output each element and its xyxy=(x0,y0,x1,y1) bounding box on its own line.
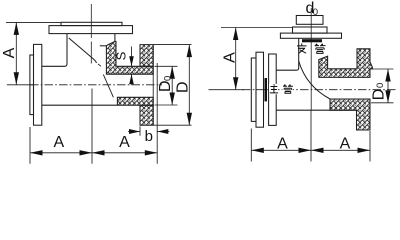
char 主 xyxy=(270,84,278,93)
dim D: line xyxy=(188,45,190,126)
svg-text:D: D xyxy=(157,80,174,92)
bottom A1 arrows xyxy=(30,150,43,155)
dim D0: line xyxy=(171,66,173,105)
hatched branch right wall + top run wall band xyxy=(106,41,153,74)
bottom A2 arrows (right fig) xyxy=(311,148,324,153)
left loose flange (right fig) xyxy=(256,52,264,127)
run bottom outer line xyxy=(276,109,356,111)
hatched branch right wall + top run wall + right socket boss xyxy=(319,49,373,78)
dim Dg right: line xyxy=(387,69,389,103)
dim S: line xyxy=(131,47,133,85)
svg-text:A: A xyxy=(340,135,351,152)
branch flange plate xyxy=(280,33,341,38)
hatched right socket top block xyxy=(140,45,153,67)
svg-text:A: A xyxy=(1,47,18,58)
dim D0 arrows xyxy=(170,66,175,79)
dim S arrows xyxy=(129,56,134,66)
left lap stub ring xyxy=(30,55,34,115)
dimensions of right figure xyxy=(221,28,293,90)
socket outer edge line xyxy=(152,45,154,126)
A-vert bottom extension / centerline left part xyxy=(209,89,245,91)
bottom ext lines (left fig) xyxy=(30,89,92,164)
dim A vertical (right fig): line xyxy=(235,28,237,90)
label D0 right (rotated) xyxy=(371,83,388,100)
top flange xyxy=(49,26,133,34)
dim Dg arrows (right fig) xyxy=(385,69,390,82)
dim D: extension lines xyxy=(153,45,191,126)
dim A vertical arrows xyxy=(14,22,19,35)
branch right wall stub below flange xyxy=(114,34,116,42)
CJK label 主管 (main pipe), white bg then strokes xyxy=(269,84,278,95)
dim b: extension lines xyxy=(140,124,157,164)
CJK label 支管 (branch pipe), hand-drawn strokes xyxy=(297,44,326,54)
svg-text:0: 0 xyxy=(375,83,386,88)
main pipe centerline (left fig) xyxy=(30,84,162,86)
left lap stub ring (right fig) xyxy=(251,58,256,121)
transition diagonal xyxy=(69,38,97,63)
dimensions of left figure xyxy=(6,22,61,84)
branch centerline (right fig) xyxy=(310,8,312,111)
branch gasket (solid) xyxy=(302,39,322,42)
bore transition diagonal xyxy=(103,74,113,97)
bottom ext lines (right fig) xyxy=(251,111,370,162)
top mid plate xyxy=(293,27,328,33)
branch left outer wall xyxy=(42,34,67,67)
char 管 (2) xyxy=(283,85,293,94)
svg-text:b: b xyxy=(145,128,153,145)
dim A vertical: extension lines xyxy=(6,22,61,84)
hatched bottom run wall + right socket bottom xyxy=(330,99,370,130)
left gasket (solid) xyxy=(265,78,268,101)
bottom A2 arrows xyxy=(92,150,105,155)
branch centerline (left fig) xyxy=(90,4,92,64)
svg-text:D: D xyxy=(371,89,388,101)
dash of diagonal centerline xyxy=(98,64,101,66)
body left flange xyxy=(269,54,277,125)
dim b arrows xyxy=(129,129,140,134)
dim Dg right: ext lines xyxy=(371,69,394,103)
label d0 (top) xyxy=(306,0,319,18)
main pipe bottom outer line xyxy=(42,104,118,106)
dim A vertical (right fig): ext line xyxy=(221,27,293,29)
dim D arrows xyxy=(187,45,192,58)
branch bore curve into run xyxy=(299,61,330,99)
hatched bottom run wall band xyxy=(117,97,153,105)
dim A vertical: line xyxy=(15,22,17,84)
svg-text:A: A xyxy=(53,134,64,151)
branch left wall xyxy=(276,38,299,70)
main centerline (right fig) xyxy=(242,89,397,91)
svg-text:A: A xyxy=(119,134,130,151)
dim A vertical arrows (right fig) xyxy=(233,28,238,41)
svg-text:A: A xyxy=(277,135,288,152)
top loose plate xyxy=(61,22,122,25)
bottom A1 arrows (right fig) xyxy=(251,148,263,153)
char 管 xyxy=(315,44,326,54)
top cap rect xyxy=(296,16,323,25)
socket mouth edge left of branch xyxy=(100,45,107,47)
bottom dim line xyxy=(30,152,157,154)
svg-text:0: 0 xyxy=(313,7,318,18)
char 支 xyxy=(297,44,307,54)
svg-text:A: A xyxy=(222,52,239,63)
left loose flange xyxy=(34,44,42,125)
hatched right socket bottom block xyxy=(140,105,153,125)
dim D0: extension lines xyxy=(155,66,178,105)
socket end face line xyxy=(156,63,158,124)
svg-text:S: S xyxy=(113,51,128,60)
bottom dim line (right fig) xyxy=(251,149,370,151)
svg-text:D: D xyxy=(175,81,192,93)
dim b: tails xyxy=(128,131,170,133)
label D0 (rotated) xyxy=(157,76,174,92)
svg-text:0: 0 xyxy=(163,76,174,81)
